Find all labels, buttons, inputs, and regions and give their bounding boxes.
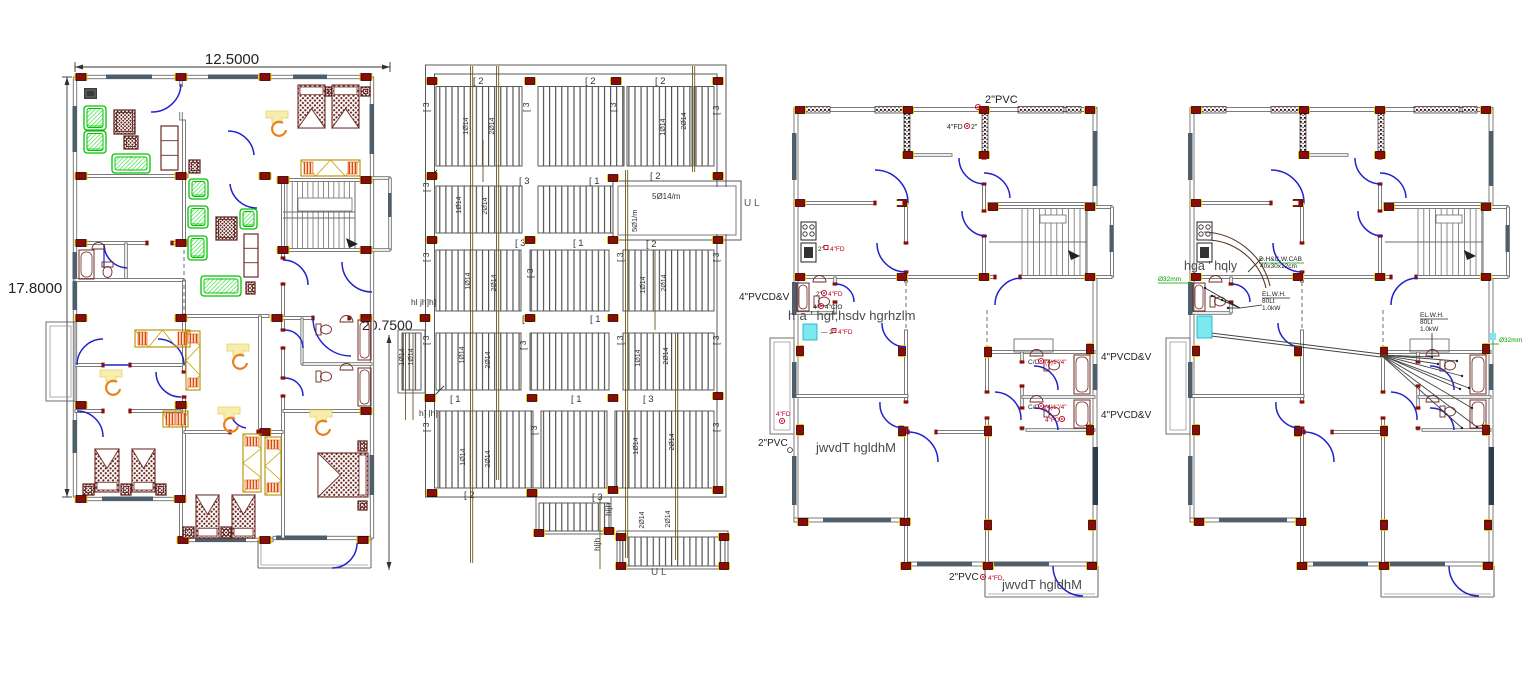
svg-text:1Ø14: 1Ø14 xyxy=(633,437,640,454)
svg-text:17.8000: 17.8000 xyxy=(8,280,62,297)
svg-text:[ 2: [ 2 xyxy=(464,490,475,501)
svg-text:hljh: hljh xyxy=(603,502,613,516)
svg-text:4"FD: 4"FD xyxy=(776,411,791,418)
svg-text:2Ø14: 2Ø14 xyxy=(639,511,646,528)
svg-text:4"PVCD&V: 4"PVCD&V xyxy=(1101,410,1152,421)
svg-text:[ 2: [ 2 xyxy=(473,76,484,87)
svg-text:4"FD: 4"FD xyxy=(830,246,845,253)
svg-text:5Ø14/m: 5Ø14/m xyxy=(652,192,681,201)
svg-text:1Ø14: 1Ø14 xyxy=(459,346,466,363)
svg-text:[ 3: [ 3 xyxy=(608,102,618,112)
svg-text:[ 3: [ 3 xyxy=(615,252,625,262)
svg-text:12.5000: 12.5000 xyxy=(205,51,259,68)
svg-text:EL.W.H.: EL.W.H. xyxy=(1262,291,1286,298)
svg-text:[ 3: [ 3 xyxy=(711,422,721,432)
svg-text:hl jh]h]: hl jh]h] xyxy=(411,297,436,307)
svg-text:[ 1: [ 1 xyxy=(571,394,582,405)
svg-text:2Ø14: 2Ø14 xyxy=(489,117,496,134)
svg-text:hga ' hqly: hga ' hqly xyxy=(1184,259,1238,273)
svg-text:jwvdT hgldhM: jwvdT hgldhM xyxy=(1001,577,1082,592)
svg-text:[ 3: [ 3 xyxy=(518,340,528,350)
svg-text:[ 3: [ 3 xyxy=(529,425,539,435)
svg-text:2Ø14: 2Ø14 xyxy=(485,351,492,368)
svg-text:1Ø14: 1Ø14 xyxy=(456,196,463,213)
svg-text:[ 1: [ 1 xyxy=(450,394,461,405)
svg-text:(4)1"/4": (4)1"/4" xyxy=(1045,404,1067,411)
svg-text:EL.W.H.: EL.W.H. xyxy=(1420,312,1444,319)
svg-text:2Ø14: 2Ø14 xyxy=(665,510,672,527)
svg-text:4"FD: 4"FD xyxy=(838,329,853,336)
svg-text:[ 1: [ 1 xyxy=(590,314,601,325)
svg-text:1.0kW: 1.0kW xyxy=(1420,326,1439,333)
svg-text:1Ø14: 1Ø14 xyxy=(635,349,642,366)
svg-text:[ 3: [ 3 xyxy=(519,176,530,187)
svg-text:2Ø14: 2Ø14 xyxy=(485,450,492,467)
svg-text:U L: U L xyxy=(744,198,760,209)
svg-text:Ø32mm: Ø32mm xyxy=(1499,337,1522,344)
svg-text:[ 2: [ 2 xyxy=(650,171,661,182)
svg-text:2Ø14: 2Ø14 xyxy=(663,347,670,364)
svg-text:U L: U L xyxy=(651,567,667,578)
svg-text:D.H&C.W.CAB: D.H&C.W.CAB xyxy=(1259,256,1302,263)
svg-text:2Ø14: 2Ø14 xyxy=(482,197,489,214)
svg-text:1.0kW: 1.0kW xyxy=(1262,305,1281,312)
svg-text:4"FD: 4"FD xyxy=(828,291,843,298)
svg-text:[ 2: [ 2 xyxy=(646,239,657,250)
svg-text:[ 3: [ 3 xyxy=(525,268,535,278)
svg-text:Ø32mm: Ø32mm xyxy=(1158,276,1181,283)
svg-text:[ 3: [ 3 xyxy=(592,492,603,503)
svg-text:4"FD: 4"FD xyxy=(1045,417,1060,424)
svg-text:1Ø14: 1Ø14 xyxy=(660,118,667,135)
svg-text:1Ø14: 1Ø14 xyxy=(460,448,467,465)
svg-text:C/O: C/O xyxy=(1028,359,1040,366)
svg-text:[ 3: [ 3 xyxy=(711,105,721,115)
svg-text:[ 3: [ 3 xyxy=(421,252,431,262)
svg-text:1Ø14: 1Ø14 xyxy=(463,117,470,134)
svg-text:2Ø14: 2Ø14 xyxy=(669,433,676,450)
svg-text:[ 3: [ 3 xyxy=(711,252,721,262)
svg-text:2"PVC: 2"PVC xyxy=(758,438,788,449)
svg-text:4"FD: 4"FD xyxy=(988,575,1003,582)
svg-text:hljh: hljh xyxy=(592,537,602,551)
svg-text:h`a ' hgf;hsdv hgrhzlm: h`a ' hgf;hsdv hgrhzlm xyxy=(788,308,916,323)
svg-text:40x30x12cm: 40x30x12cm xyxy=(1260,263,1297,270)
svg-text:80Lt: 80Lt xyxy=(1262,298,1275,305)
svg-text:1Ø14: 1Ø14 xyxy=(465,272,472,289)
svg-text:[ 3: [ 3 xyxy=(421,102,431,112)
svg-text:(4)1"/4": (4)1"/4" xyxy=(1045,359,1067,366)
svg-text:h] |h]: h] |h] xyxy=(419,408,438,418)
svg-text:2Ø14: 2Ø14 xyxy=(681,112,688,129)
svg-text:[ 3: [ 3 xyxy=(615,335,625,345)
svg-text:4"FD: 4"FD xyxy=(947,124,963,131)
svg-text:[ 2: [ 2 xyxy=(585,76,596,87)
svg-text:5Ø1/m: 5Ø1/m xyxy=(630,209,639,232)
svg-text:[ 3: [ 3 xyxy=(421,422,431,432)
svg-text:[ 3: [ 3 xyxy=(515,238,526,249)
svg-text:[ 3: [ 3 xyxy=(421,182,431,192)
svg-text:[ 1: [ 1 xyxy=(573,238,584,249)
svg-text:[ 1: [ 1 xyxy=(589,176,600,187)
svg-text:1Ø14: 1Ø14 xyxy=(399,348,406,365)
svg-text:2Ø14: 2Ø14 xyxy=(491,274,498,291)
svg-text:4"PVCD&V: 4"PVCD&V xyxy=(1101,352,1152,363)
svg-text:[ 3: [ 3 xyxy=(711,335,721,345)
svg-text:2Ø14: 2Ø14 xyxy=(661,274,668,291)
svg-text:[ 3: [ 3 xyxy=(521,102,531,112)
svg-text:80Lt: 80Lt xyxy=(1420,319,1433,326)
svg-text:jwvdT hgldhM: jwvdT hgldhM xyxy=(815,440,896,455)
svg-text:[ 2: [ 2 xyxy=(655,76,666,87)
svg-text:2": 2" xyxy=(971,124,978,131)
svg-text:2"PVC: 2"PVC xyxy=(985,94,1018,106)
svg-text:[ 3: [ 3 xyxy=(421,335,431,345)
svg-text:1Ø14: 1Ø14 xyxy=(640,276,647,293)
svg-text:2"PVC: 2"PVC xyxy=(949,572,979,583)
svg-text:4"PVCD&V: 4"PVCD&V xyxy=(739,292,790,303)
svg-text:1Ø14: 1Ø14 xyxy=(408,348,415,365)
svg-text:[ 3: [ 3 xyxy=(643,394,654,405)
svg-text:C/O: C/O xyxy=(1028,404,1040,411)
